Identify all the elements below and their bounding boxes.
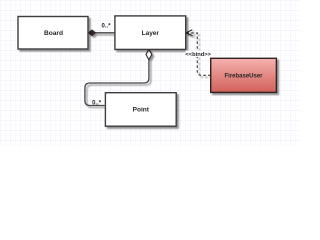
svg-text:Layer: Layer <box>142 30 160 37</box>
svg-text:0..*: 0..* <box>101 23 111 29</box>
svg-text:0..*: 0..* <box>92 101 102 107</box>
svg-text:Board: Board <box>44 30 63 37</box>
svg-text:<<bind>>: <<bind>> <box>185 52 211 58</box>
svg-text:FirebaseUser: FirebaseUser <box>224 74 263 80</box>
svg-text:Point: Point <box>133 107 150 114</box>
